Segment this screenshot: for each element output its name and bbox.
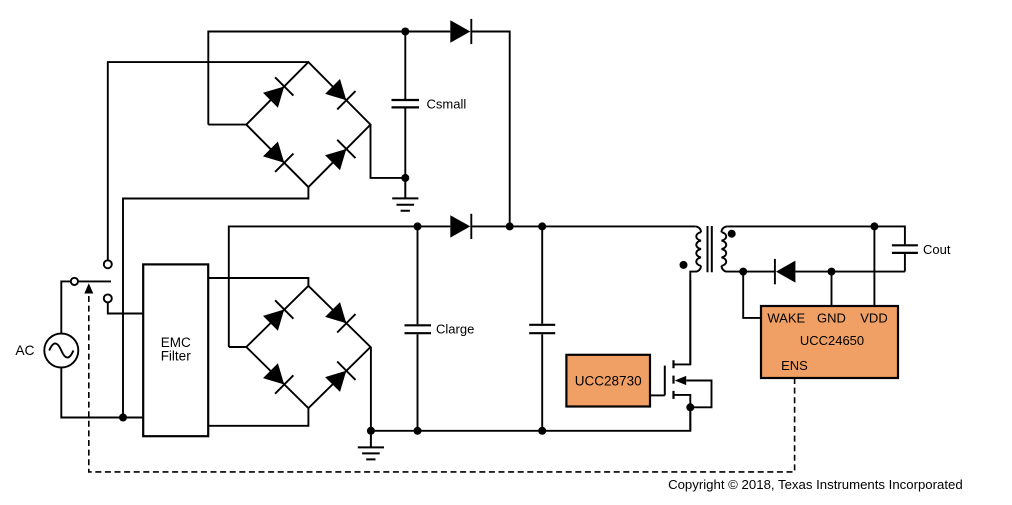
wire secondary top rail: [727, 226, 905, 244]
svg-text:Copyright © 2018, Texas Instru: Copyright © 2018, Texas Instruments Inco…: [668, 477, 963, 492]
node: junction middle rail / Clarge: [414, 222, 422, 230]
wire middle rail (bulk DC): [229, 226, 695, 347]
node: junction source/body: [686, 403, 694, 411]
node: junction ground rail / C2: [538, 427, 546, 435]
svg-text:UCC24650: UCC24650: [800, 333, 864, 348]
diode D2 (middle rail): [450, 214, 471, 239]
node: junction ground rail / bridge: [367, 427, 375, 435]
wire lower bridge right vertex to ground rail: [370, 347, 372, 431]
wire AC top to switch: [61, 281, 71, 333]
transistor Q1 source tap: [674, 395, 691, 431]
node: junction Csmall bottom / ground: [401, 174, 409, 182]
AC source V1: [44, 334, 78, 368]
bridge rectifier BR2 (lower): [246, 286, 370, 408]
capacitor Cout: [904, 253, 906, 271]
transformer T1 primary winding: [690, 226, 701, 364]
node: junction top rail / Csmall: [401, 28, 409, 36]
node: junction secondary / WAKE: [739, 268, 747, 276]
wire upper bridge bottom vertex return: [123, 187, 308, 417]
transistor Q1 channel segments: [672, 360, 674, 399]
wire EMC to lower bridge top: [208, 278, 308, 286]
wire AC bottom to EMC filter: [61, 368, 143, 418]
wire top rail: [208, 32, 509, 227]
node: junction ground rail / Clarge: [414, 427, 422, 435]
svg-text:Cout: Cout: [923, 242, 951, 257]
capacitor Clarge: [417, 226, 419, 430]
svg-text:VDD: VDD: [860, 311, 887, 326]
switch S1 lower contact: [104, 294, 112, 302]
svg-text:UCC28730: UCC28730: [575, 373, 642, 388]
transistor Q1 body arrow: [675, 376, 687, 385]
bridge rectifier BR1 (upper): [246, 62, 370, 187]
IC U2 UCC24650: [761, 306, 898, 378]
transistor Q1 drain tap: [674, 280, 691, 364]
diode BR1 bottom-right: [325, 140, 355, 170]
diode BR2 top-right: [325, 302, 355, 332]
svg-text:WAKE: WAKE: [767, 311, 805, 326]
node: junction middle rail / top branch: [506, 222, 514, 230]
ground (main): [358, 431, 384, 460]
node: secondary phasing dot: [728, 230, 736, 238]
switch S1 common contact: [71, 278, 78, 285]
node: junction output / GND pin: [828, 268, 836, 276]
wire upper bridge input top: [108, 62, 309, 260]
node: junction middle rail / C2: [538, 222, 546, 230]
switch S1 upper contact: [104, 260, 112, 268]
EMC filter block: [143, 264, 208, 436]
diode BR2 bottom-left: [263, 363, 293, 393]
svg-text:Filter: Filter: [161, 349, 192, 364]
arrowhead (feedback to switch): [84, 283, 93, 293]
diode D1 (top rail): [450, 19, 471, 44]
wire middle rail leg to lower bridge left vertex: [229, 346, 247, 348]
capacitor C2: [541, 226, 543, 430]
svg-text:GND: GND: [817, 311, 846, 326]
wire WAKE pin: [743, 272, 761, 318]
wire gate: [650, 394, 665, 396]
diode BR1 bottom-left: [263, 142, 293, 172]
wire EMC to lower bridge bottom: [208, 408, 308, 426]
IC U1 UCC28730: [566, 355, 650, 407]
wire GND pin: [831, 272, 833, 306]
transistor Q1 gate bar: [664, 366, 666, 396]
capacitor Csmall: [404, 32, 406, 178]
diode BR2 bottom-right: [325, 362, 355, 392]
node: junction top rail / VDD pin: [870, 222, 878, 230]
wire secondary output line: [743, 271, 905, 273]
diode D3 (output, points left): [775, 259, 796, 284]
wire VDD pin: [873, 226, 875, 306]
node: primary phasing dot: [680, 261, 688, 269]
svg-text:Clarge: Clarge: [436, 321, 474, 336]
wire lower contact to EMC filter: [108, 302, 143, 313]
wire upper bridge right vertex to Csmall node: [371, 125, 406, 178]
ground (below Csmall): [392, 178, 418, 211]
svg-text:Csmall: Csmall: [427, 96, 467, 111]
transformer T1 core: [708, 226, 712, 272]
svg-text:AC: AC: [15, 343, 34, 358]
wire ground rail: [371, 407, 690, 431]
wire upper bridge left vertex to top rail: [208, 124, 246, 126]
diode BR1 top-left: [263, 77, 293, 107]
switch S1 blade: [78, 280, 111, 282]
diode BR1 top-right: [325, 79, 355, 109]
dashed feedback: ENS to switch: [89, 288, 795, 472]
node: junction AC return / bridge return: [119, 414, 127, 422]
transformer T1 secondary winding: [722, 226, 744, 271]
diode BR2 top-left: [263, 300, 293, 330]
wire body to source: [686, 381, 711, 408]
svg-text:ENS: ENS: [781, 358, 808, 373]
